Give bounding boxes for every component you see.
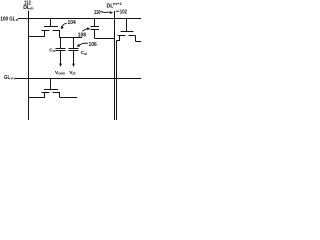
transistor TFT 104 source electrode — [42, 30, 50, 32]
svg-text:102: 102 — [120, 10, 127, 16]
svg-text:m+1: m+1 — [113, 2, 122, 6]
transistor TFT lower drain electrode — [53, 92, 61, 94]
capacitor Cgd bottom lead — [94, 30, 96, 39]
transistor TFT lower source drop — [44, 93, 46, 98]
capacitor Cgd 108 top lead — [94, 19, 96, 27]
transistor TFT 104 source drop — [44, 31, 46, 37]
svg-text:Vst: Vst — [69, 70, 76, 76]
svg-text:Cst: Cst — [81, 50, 88, 56]
data line DLm+1 (vertical, 102/110) — [114, 11, 116, 120]
capacitor Cst top lead — [73, 38, 75, 49]
capacitor Cst plates — [69, 48, 79, 50]
wire parallel line right of DLm+1 — [116, 41, 118, 121]
wire source to DLm — [29, 36, 46, 38]
capacitor Clc bottom lead — [60, 51, 62, 65]
transistor TFT lower gate stub — [50, 79, 52, 90]
leader tilde 102 — [116, 10, 119, 12]
Vst arrowhead — [72, 64, 75, 67]
wire lower pixel node — [60, 97, 78, 99]
transistor TFT 104 drain drop — [59, 31, 61, 38]
leader arrow 106 — [79, 43, 88, 45]
wire TFT right drain to edge — [136, 41, 142, 43]
transistor TFT right gate stub — [126, 19, 128, 32]
svg-text:106: 106 — [89, 42, 97, 48]
Vcom arrowhead — [59, 64, 62, 67]
svg-text:GL: GL — [4, 75, 10, 81]
data line DLm (vertical, 112) — [28, 11, 30, 121]
transistor TFT 104 gate bar — [44, 26, 58, 28]
svg-text:n+1: n+1 — [11, 77, 15, 81]
svg-text:108: 108 — [78, 32, 86, 38]
transistor TFT right source electrode — [118, 35, 126, 37]
svg-text:104: 104 — [68, 20, 76, 26]
transistor TFT 104 gate stub — [50, 19, 52, 27]
svg-text:Clc: Clc — [49, 47, 55, 53]
leader arrow 110 squiggle — [100, 11, 111, 14]
transistor TFT lower drain drop — [59, 93, 61, 98]
svg-text:DLm: DLm — [23, 5, 34, 11]
transistor TFT right drain electrode — [129, 35, 136, 37]
svg-text:GL: GL — [9, 16, 15, 22]
gate line GLn+1 — [15, 78, 141, 80]
transistor TFT lower source electrode — [42, 92, 50, 94]
transistor TFT lower gate bar — [44, 89, 58, 91]
svg-text:110: 110 — [94, 10, 101, 16]
svg-text:100: 100 — [0, 16, 8, 22]
capacitor Clc top lead — [60, 38, 62, 49]
capacitor Cgd plates — [91, 26, 100, 28]
transistor TFT right gate bar — [121, 31, 134, 33]
capacitor Clc plates — [56, 48, 66, 50]
wire lower source to DLm — [29, 97, 46, 99]
transistor TFT right drain drop — [135, 36, 137, 42]
leader arrow 108 — [83, 29, 89, 32]
capacitor Cst bottom lead — [73, 51, 75, 65]
wire pixel node — [60, 37, 83, 39]
gate line GLn (100) — [18, 18, 141, 20]
wire TFT right source to parallel line — [117, 40, 121, 42]
leader arrow 104 — [62, 23, 67, 27]
transistor TFT 104 drain electrode — [53, 30, 61, 32]
wire Cgd to DLm+1 — [95, 38, 115, 40]
transistor TFT right source drop — [119, 36, 121, 41]
svg-text:Vcom: Vcom — [55, 70, 65, 76]
